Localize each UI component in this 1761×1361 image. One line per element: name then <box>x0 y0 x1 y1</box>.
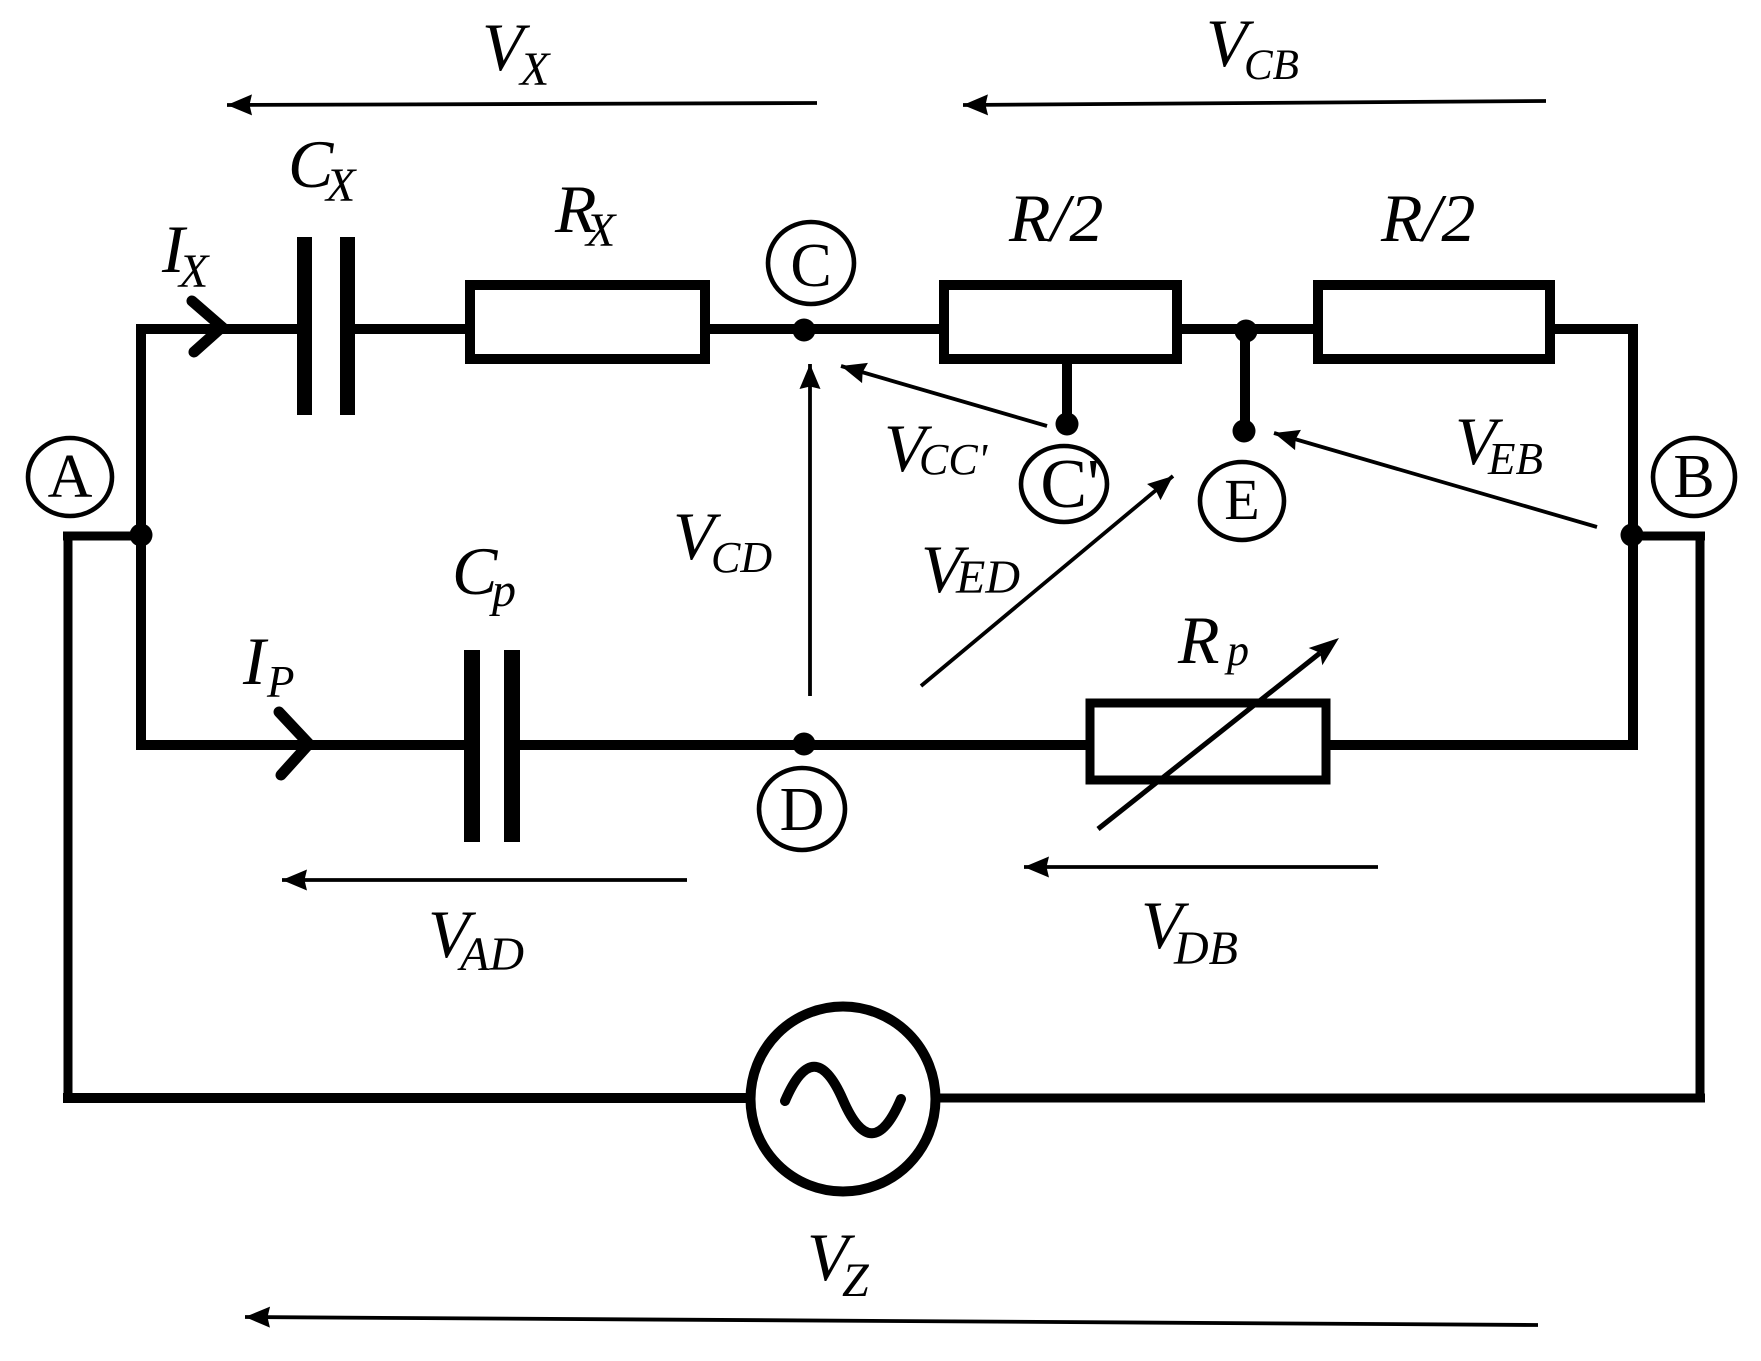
arrow VDB <box>1024 865 1378 869</box>
resistor RX box <box>470 285 705 359</box>
node D circle <box>759 768 845 850</box>
wire top branch A-corner to Cx left plate <box>136 324 310 334</box>
wire Cx right plate to top-right corner at B <box>342 324 1638 334</box>
AC source VZ circle <box>751 1007 936 1192</box>
arrow VEB <box>1274 433 1597 527</box>
arrow VCC' <box>841 366 1047 426</box>
arrow VAD <box>282 878 687 882</box>
node A junction <box>130 524 153 547</box>
node A circle <box>28 438 112 516</box>
svg-text:A: A <box>48 443 93 511</box>
node C' tap dot <box>1056 413 1079 436</box>
arrow VED <box>921 476 1173 686</box>
node D junction <box>793 733 816 756</box>
wire left outer vertical A to bottom <box>64 536 73 1098</box>
node B circle <box>1653 438 1735 516</box>
wire middle branch Cp right plate to corner at B <box>506 740 1638 750</box>
node E tap dot <box>1233 420 1256 443</box>
current IP arrow chevron <box>279 712 309 775</box>
svg-text:B: B <box>1673 443 1714 511</box>
wire A jog horizontal <box>63 532 141 541</box>
resistor Rp box <box>1090 703 1326 780</box>
arrow VX <box>227 103 817 105</box>
wire C' tap stub <box>1062 360 1072 424</box>
wire E tap stub <box>1240 331 1250 431</box>
resistor R/2 left box <box>944 285 1177 359</box>
capacitor Cp plates <box>464 650 480 842</box>
wire bottom source to right <box>930 1094 1705 1103</box>
wire middle branch A to Cp left plate <box>136 740 478 750</box>
svg-text:R/2: R/2 <box>1380 180 1475 256</box>
node B junction <box>1621 524 1644 547</box>
arrow VCB <box>963 101 1546 105</box>
resistor R/2 right box <box>1318 285 1550 359</box>
AC source sine symbol <box>785 1067 901 1134</box>
wire B jog horizontal <box>1633 532 1705 541</box>
wire bottom left to source <box>63 1093 760 1103</box>
node E top junction <box>1235 320 1258 343</box>
wire right inner vertical <box>1628 329 1638 745</box>
node C junction <box>793 319 816 342</box>
arrow VCD <box>808 364 812 696</box>
arrow VZ <box>245 1317 1538 1325</box>
node C' circle <box>1021 446 1107 522</box>
svg-text:C': C' <box>1040 446 1099 523</box>
node E circle <box>1200 462 1284 540</box>
capacitor CX plates <box>297 237 312 415</box>
current IX arrow chevron <box>192 301 222 352</box>
variable resistor Rp diagonal arrow <box>1098 653 1320 829</box>
node C circle <box>768 222 854 304</box>
svg-text:R/2: R/2 <box>1008 180 1103 256</box>
svg-text:D: D <box>780 776 825 844</box>
svg-text:E: E <box>1224 467 1259 532</box>
wire left inner vertical A to branches <box>136 329 146 745</box>
svg-text:C: C <box>790 232 831 300</box>
wire right outer vertical to B <box>1696 536 1705 1098</box>
